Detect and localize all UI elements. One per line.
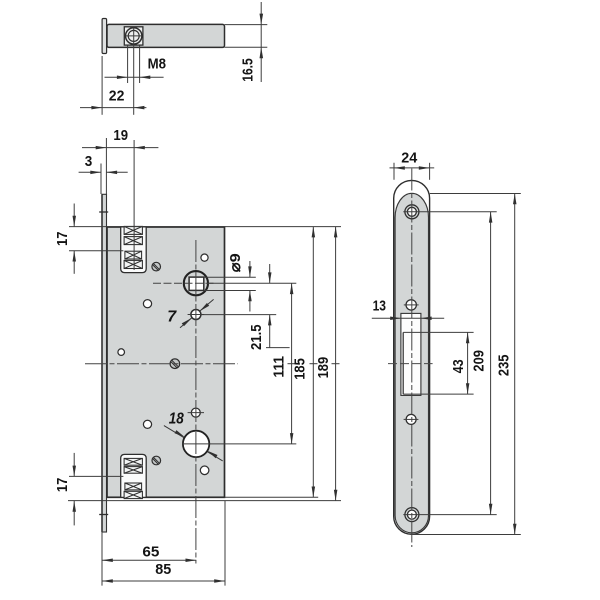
faceplate outline: [394, 180, 430, 534]
screw top: [152, 262, 161, 271]
extension lines of case height: [225, 24, 268, 26]
hole d7: [167, 303, 209, 326]
faceplate inner plate: [395, 193, 428, 533]
svg-text:16.5: 16.5: [240, 58, 257, 82]
svg-text:189: 189: [315, 357, 332, 379]
leader line hole 18: [164, 426, 223, 461]
leader line hole 7: [180, 299, 214, 327]
centerline vertical: [195, 240, 197, 564]
svg-text:43: 43: [450, 359, 467, 373]
screw middle: [170, 359, 180, 369]
dimension M8: [105, 46, 167, 84]
svg-text:M8: M8: [148, 56, 166, 73]
faceplate side view: [102, 19, 107, 54]
screw hole bottom: [405, 508, 419, 522]
bottom spring cells: [124, 458, 142, 498]
small hole with cross: [188, 408, 204, 417]
svg-text:19: 19: [113, 127, 128, 144]
dimension 16.5: [240, 2, 264, 82]
dimension 43: [450, 332, 470, 394]
dimension 65: [102, 531, 196, 586]
small hole lower: [404, 414, 419, 424]
svg-text:65: 65: [142, 544, 159, 561]
dimension 22: [80, 44, 146, 115]
nut cross lines: [126, 35, 142, 37]
screw bottom: [152, 456, 161, 465]
svg-text:3: 3: [85, 153, 93, 170]
svg-text:17: 17: [54, 231, 71, 246]
dimension 17 bottom: [54, 453, 123, 526]
top spring cells: [124, 226, 142, 268]
svg-text:⌀9: ⌀9: [227, 253, 244, 272]
svg-text:185: 185: [292, 358, 309, 380]
dimension 189: [315, 227, 337, 501]
dimension 13: [372, 297, 444, 320]
lower long extension line: [68, 500, 341, 502]
dimension d9: [204, 253, 256, 311]
svg-text:17: 17: [54, 478, 71, 493]
cylinder hole d18: [169, 411, 218, 459]
nut M8 circles: [126, 28, 142, 44]
svg-text:18: 18: [169, 411, 184, 428]
svg-text:22: 22: [109, 88, 125, 105]
dimension 235: [413, 194, 521, 535]
dimension 19: [82, 127, 158, 270]
nut M8 square: [124, 27, 143, 45]
dimension 209: [471, 212, 493, 515]
centerline horizontal: [85, 363, 238, 365]
lock case bar: [107, 24, 225, 47]
top edge extension line: [69, 226, 341, 228]
bottom edge extension line: [225, 496, 319, 498]
small hole upper: [404, 300, 419, 310]
screw axis lines: [403, 211, 496, 213]
latch bolt inner lines: [402, 332, 404, 394]
svg-text:111: 111: [270, 356, 287, 378]
cylinder hole axis: [182, 443, 296, 445]
follower axis dashed: [153, 282, 214, 284]
faceplate centerline horizontal: [388, 363, 433, 365]
dimension 111: [270, 283, 293, 444]
dimension 21.5: [201, 264, 290, 350]
lock body plate: [107, 227, 225, 497]
faceplate screw ticks: [99, 211, 108, 213]
small round holes: [201, 254, 208, 261]
dimension 24: [390, 150, 435, 180]
screw hole top: [405, 205, 419, 219]
svg-text:235: 235: [496, 355, 513, 377]
svg-text:7: 7: [167, 308, 177, 325]
svg-text:21.5: 21.5: [248, 324, 265, 350]
latch cutout: [401, 313, 421, 395]
svg-text:24: 24: [401, 150, 418, 167]
dimension 85: [102, 501, 225, 586]
follower square hub: [184, 271, 208, 295]
bottom spring housing: [121, 454, 147, 497]
top spring housing: [121, 227, 147, 273]
dimension 17 top: [54, 204, 123, 274]
dimension 185: [292, 227, 316, 498]
dimension 3: [79, 153, 128, 194]
svg-text:85: 85: [155, 561, 171, 578]
spring axis line over cells: [133, 227, 135, 270]
faceplate edge strip: [102, 194, 107, 532]
svg-text:209: 209: [471, 350, 488, 372]
faceplate centerline vertical: [411, 169, 413, 548]
svg-text:13: 13: [373, 297, 386, 314]
